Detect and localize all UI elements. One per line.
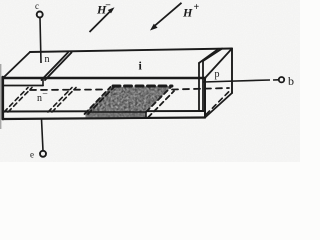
plate hidden bottom-right depth edge (dashed) xyxy=(148,91,174,118)
p region boundary diagonal 2 xyxy=(203,49,222,61)
terminal b wire xyxy=(203,80,270,82)
n-minus hidden box right diagonal 1 (dashed) xyxy=(48,88,72,113)
plate right edge (dashed) xyxy=(146,86,172,112)
p region boundary vertical 2 xyxy=(202,61,204,111)
H-minus arrow head xyxy=(108,7,115,13)
hidden back-bottom edge left part (dashed) xyxy=(30,89,106,92)
H-minus arrow shaft xyxy=(90,11,111,32)
p region boundary vertical 1 xyxy=(198,63,200,111)
terminal b wire dash xyxy=(273,79,279,81)
plate front strip bottom edge xyxy=(86,117,147,119)
bar internal bottom-slab line xyxy=(3,110,205,113)
plate left edge dashed 1 xyxy=(85,87,111,114)
n region front bottom line xyxy=(3,85,43,87)
terminal e circle xyxy=(40,151,46,157)
terminal c circle xyxy=(37,12,43,18)
hidden slab line on right face (dashed) xyxy=(206,92,229,115)
plate front strip top edge xyxy=(86,111,147,113)
plate front strip right edge xyxy=(145,112,147,118)
paper background xyxy=(0,0,300,162)
bar left edge xyxy=(1,77,4,119)
bar front-right edge xyxy=(204,78,206,118)
bar bottom front edge xyxy=(3,118,205,120)
H-plus arrow shaft xyxy=(155,3,182,26)
n-minus hidden box left diagonal 1 (dashed) xyxy=(4,88,28,113)
bar front-top edge xyxy=(3,77,205,80)
terminal b circle xyxy=(279,77,284,82)
hidden back-bottom edge right part (dashed) xyxy=(172,88,229,90)
n region front right tick xyxy=(42,78,44,86)
n-minus hidden box left diagonal 2 (dashed) xyxy=(8,88,32,113)
bar top-left depth edge xyxy=(3,52,30,78)
bar top-right depth edge xyxy=(205,49,232,79)
terminal e wire xyxy=(42,119,44,151)
bar back-top edge xyxy=(30,49,232,53)
gray plate front face strip xyxy=(86,112,147,119)
bar right face right edge xyxy=(231,49,233,94)
n-minus hidden box right diagonal 2 (dashed) xyxy=(52,88,76,113)
p region boundary diagonal 1 xyxy=(199,49,219,63)
gray plate top face xyxy=(86,86,172,112)
n region boundary double diagonal 1 xyxy=(42,53,69,81)
plate left edge dashed 2 xyxy=(88,87,114,114)
plate top back edge (thick dashed) xyxy=(113,85,172,88)
terminal c wire xyxy=(40,18,41,64)
bar right face bottom edge xyxy=(205,93,232,118)
n region boundary double diagonal 2 xyxy=(45,53,72,81)
paper noise overlay xyxy=(0,0,300,162)
plate strip texture xyxy=(86,112,147,119)
H-plus arrow head xyxy=(150,24,158,31)
scan smudge left edge xyxy=(0,64,1,129)
